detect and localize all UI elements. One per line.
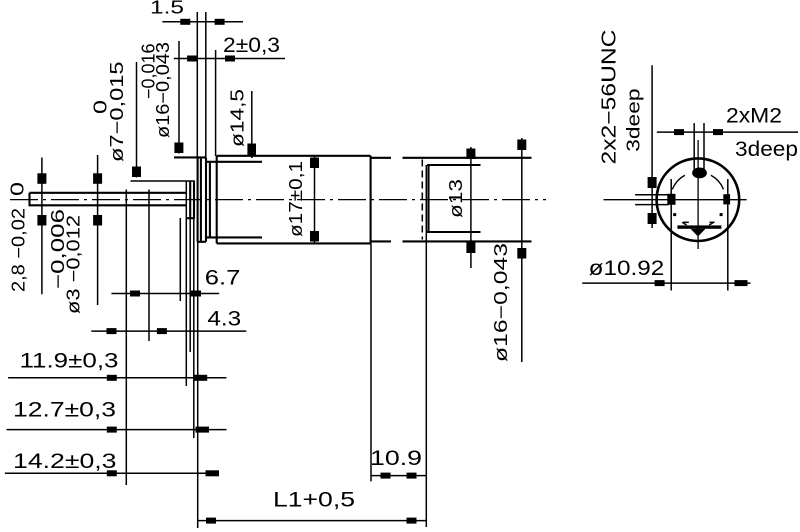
svg-text:14.2±0,3: 14.2±0,3 <box>13 450 117 473</box>
svg-text:1.5: 1.5 <box>150 0 184 18</box>
svg-text:12.7±0,3: 12.7±0,3 <box>13 399 116 422</box>
svg-text:ø3 −0,012: ø3 −0,012 <box>64 215 84 314</box>
label o16 -0,016/-0,043 <box>138 41 183 154</box>
svg-text:10.9: 10.9 <box>370 447 422 470</box>
svg-text:ø10.92: ø10.92 <box>589 257 665 280</box>
label 2x2-56UNC 3deep <box>599 30 669 229</box>
svg-text:6.7: 6.7 <box>205 267 241 290</box>
end view vertical centerline <box>697 140 699 249</box>
svg-text:11.9±0,3: 11.9±0,3 <box>20 350 119 373</box>
svg-text:ø13: ø13 <box>446 179 466 218</box>
dim 1.5 <box>150 0 243 157</box>
svg-text:0: 0 <box>8 182 28 196</box>
dim 12.7+-0,3 <box>7 399 227 433</box>
label o17+-0,1 <box>286 157 319 243</box>
svg-text:ø17±0,1: ø17±0,1 <box>286 161 306 237</box>
pitch circle o10.92 dash-dot <box>672 175 685 189</box>
dim L1+0,5 <box>198 489 426 524</box>
label 2.8 -0,02 <box>8 158 47 295</box>
right tapped hole 2-56UNC <box>723 179 730 291</box>
rear housing o16 with length break <box>371 158 532 242</box>
dim 6.7 <box>111 218 240 301</box>
motor body o17 <box>217 156 371 244</box>
front plates stack <box>174 157 262 241</box>
label o16-0,043 right <box>491 138 526 362</box>
svg-text:3deep: 3deep <box>735 138 798 161</box>
svg-text:4.3: 4.3 <box>207 308 241 331</box>
end view outer circle o16 <box>657 158 740 241</box>
svg-text:2±0,3: 2±0,3 <box>223 34 280 57</box>
shaft o3 outline <box>29 193 187 206</box>
dim 4.3 <box>91 190 246 486</box>
dim 10.9 <box>370 165 426 527</box>
hidden edge dashed <box>421 160 423 240</box>
centerline side view <box>10 199 546 201</box>
svg-text:2,8 −0,02: 2,8 −0,02 <box>9 208 29 292</box>
label o13 <box>446 147 475 268</box>
extension lines front face cluster <box>186 181 197 528</box>
end view horizontal centerline <box>604 199 747 201</box>
inner bore o13 <box>427 165 481 232</box>
label o3 -0,006/-0,012 <box>48 155 102 314</box>
dim 11.9+-0,3 <box>8 350 226 381</box>
label o14,5 <box>228 89 257 158</box>
svg-text:ø14,5: ø14,5 <box>228 89 248 147</box>
svg-text:ø16−0,043: ø16−0,043 <box>153 42 173 138</box>
svg-text:3deep: 3deep <box>624 88 644 151</box>
dim o10.92 <box>582 257 750 286</box>
svg-text:2xM2: 2xM2 <box>726 105 782 128</box>
dim 14.2+-0,3 <box>5 450 219 476</box>
left tapped hole 2-56UNC <box>667 179 675 291</box>
label o7 -0,015 <box>91 62 142 178</box>
svg-text:2x2−56UNC: 2x2−56UNC <box>599 30 621 165</box>
svg-text:ø16−0,043: ø16−0,043 <box>491 243 511 362</box>
bottom hole / key feature <box>677 222 721 236</box>
top tapped hole M2 <box>692 123 707 178</box>
boss o7 outline <box>131 181 195 218</box>
dim 2xM2 3deep <box>657 105 798 162</box>
svg-text:ø7−0,015: ø7−0,015 <box>107 62 127 163</box>
svg-text:L1+0,5: L1+0,5 <box>273 489 355 512</box>
dim 2+-0,3 <box>174 34 285 156</box>
